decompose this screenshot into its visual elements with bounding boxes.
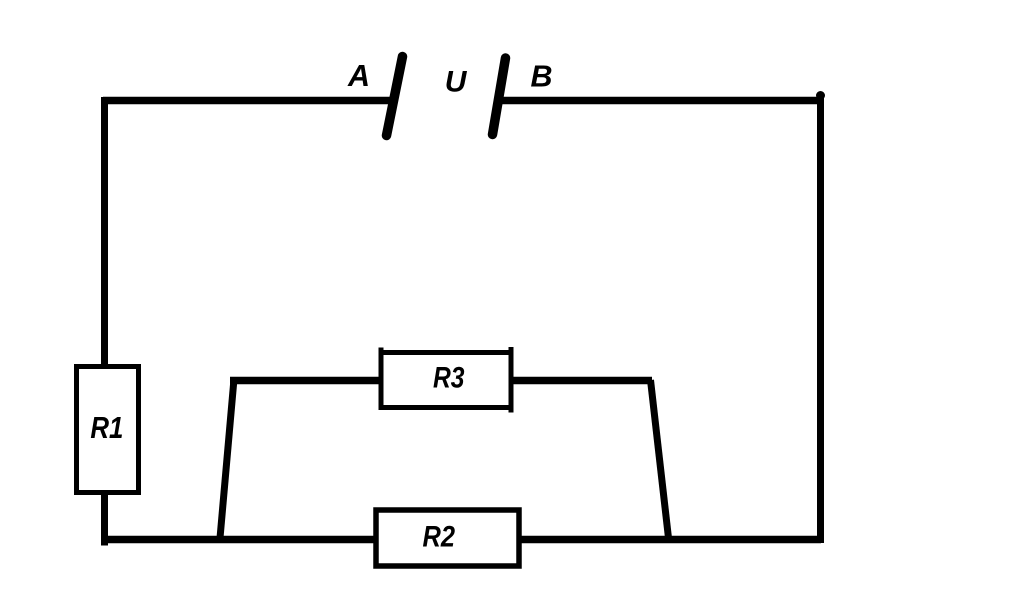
resistor R2 xyxy=(376,510,519,566)
wire top-left horizontal xyxy=(103,97,392,105)
resistor R3 xyxy=(381,353,511,408)
wire right vertical xyxy=(817,96,824,543)
resistor R3 right-edge bottom overshoot xyxy=(509,406,514,413)
wire R1 bottom stub xyxy=(101,492,108,546)
wire R3 left lead xyxy=(230,377,381,385)
svg-text:A: A xyxy=(347,59,370,93)
svg-text:R2: R2 xyxy=(423,520,456,553)
svg-text:R1: R1 xyxy=(90,411,123,445)
resistor R3 left-edge overshoot xyxy=(379,348,384,355)
wire left vertical xyxy=(101,97,108,369)
wire bottom horizontal xyxy=(101,536,821,544)
resistor R1 xyxy=(77,367,139,493)
resistor R3 right-edge overshoot xyxy=(509,347,514,354)
terminal B slash xyxy=(493,58,506,135)
svg-text:U: U xyxy=(445,65,468,98)
svg-text:R3: R3 xyxy=(433,361,465,394)
terminal A slash xyxy=(387,57,403,136)
wire top-right horizontal xyxy=(502,97,821,105)
node dot top-right corner xyxy=(816,91,825,100)
wire R3 right lead xyxy=(511,377,652,385)
wire right slant of parallel branch xyxy=(651,380,669,538)
svg-text:B: B xyxy=(530,59,552,93)
wire left slant of parallel branch xyxy=(220,379,234,538)
